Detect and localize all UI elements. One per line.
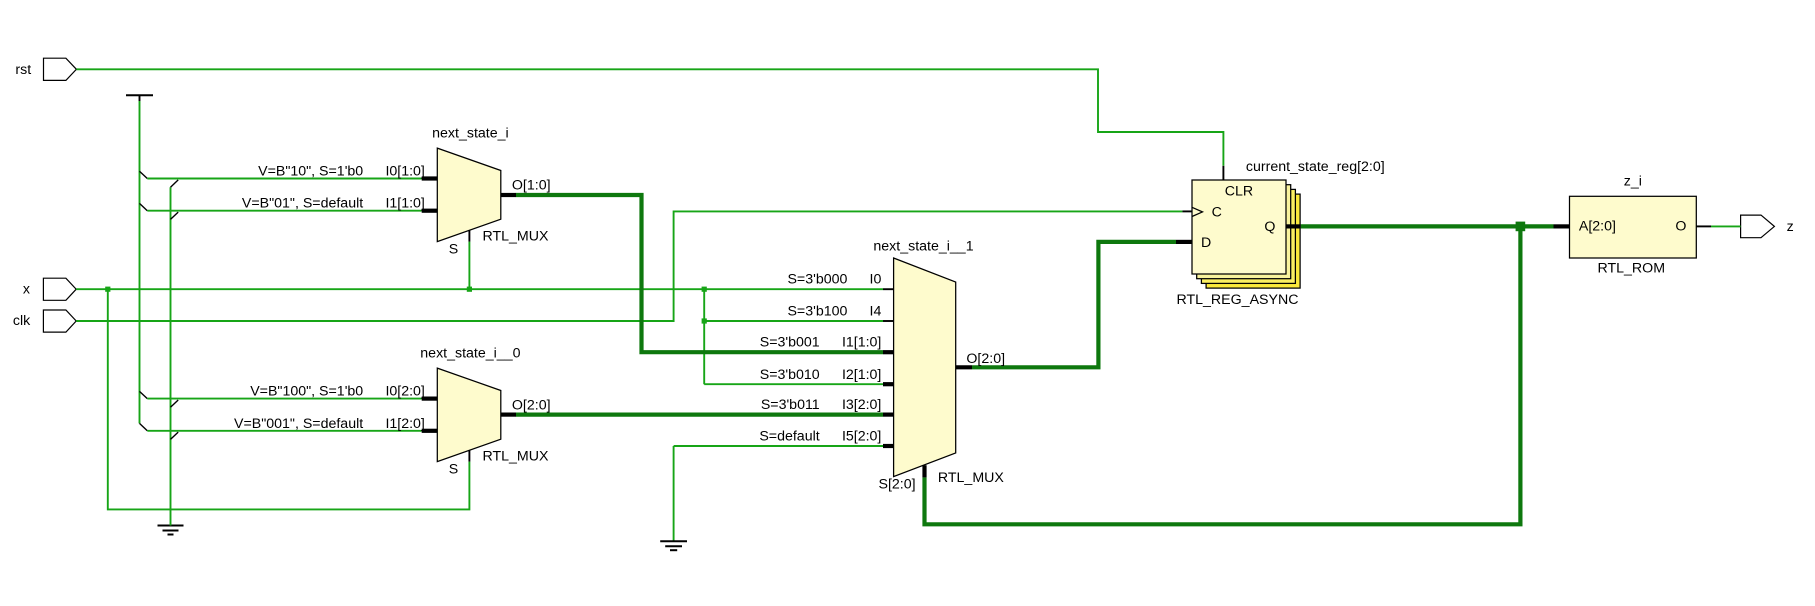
svg-text:rst: rst bbox=[15, 62, 31, 78]
svg-text:x: x bbox=[23, 282, 30, 298]
input port clk bbox=[43, 310, 76, 332]
node junction x-S1 bbox=[467, 287, 472, 292]
svg-text:RTL_ROM: RTL_ROM bbox=[1598, 261, 1666, 277]
pin S[2:0] stub bbox=[922, 465, 926, 477]
wire constant V=B"01" to I1 of next_state_i bbox=[140, 203, 148, 210]
wire x net horizontal bbox=[76, 288, 883, 290]
svg-text:z_i: z_i bbox=[1624, 174, 1642, 190]
node junction Q-feedback bbox=[1516, 222, 1526, 232]
pin I0[1:0] stub bbox=[422, 176, 438, 180]
svg-text:S: S bbox=[449, 462, 458, 478]
mux next_state_i bbox=[437, 148, 501, 242]
svg-text:I5[2:0]: I5[2:0] bbox=[842, 429, 881, 445]
input port rst bbox=[44, 58, 77, 80]
svg-text:S[2:0]: S[2:0] bbox=[879, 477, 916, 493]
output port z bbox=[1741, 215, 1775, 238]
pin I0[2:0] stub bbox=[422, 397, 438, 401]
wire bus O[2:0] of next_state_i__1 to D bbox=[972, 242, 1176, 367]
svg-text:current_state_reg[2:0]: current_state_reg[2:0] bbox=[1246, 159, 1385, 175]
wire constant V=B"100" to I0 of next_state_i__0 bbox=[140, 391, 148, 398]
pin S stub bbox=[468, 450, 470, 461]
wire bus Q to A[2:0] bbox=[1301, 224, 1554, 228]
svg-text:S=3'b000: S=3'b000 bbox=[787, 272, 847, 288]
mux next_state_i__1 bbox=[894, 258, 956, 477]
input port x bbox=[43, 278, 76, 300]
pin I0 stub bbox=[883, 288, 894, 290]
svg-text:I1[2:0]: I1[2:0] bbox=[385, 416, 424, 432]
pin Q stub bbox=[1286, 224, 1301, 228]
svg-text:z: z bbox=[1787, 219, 1794, 235]
pin S stub bbox=[468, 230, 470, 241]
pin I5[2:0] stub bbox=[883, 444, 894, 448]
svg-text:S: S bbox=[449, 241, 458, 257]
svg-text:V=B"001", S=default: V=B"001", S=default bbox=[234, 416, 363, 432]
svg-text:A[2:0]: A[2:0] bbox=[1579, 219, 1616, 235]
pin I1[1:0] stub bbox=[422, 209, 438, 213]
svg-text:next_state_i__0: next_state_i__0 bbox=[420, 346, 520, 362]
pin CLR stub bbox=[1222, 166, 1224, 180]
pin I2[1:0] stub bbox=[883, 382, 894, 386]
power VCC symbol bbox=[126, 94, 153, 96]
pin I1[2:0] stub bbox=[422, 429, 438, 433]
svg-text:S=default: S=default bbox=[759, 429, 819, 445]
register RTL_REG_ASYNC body bbox=[1192, 180, 1286, 274]
svg-text:clk: clk bbox=[13, 313, 31, 329]
svg-text:RTL_MUX: RTL_MUX bbox=[938, 470, 1005, 486]
svg-text:RTL_MUX: RTL_MUX bbox=[483, 449, 550, 465]
svg-text:next_state_i__1: next_state_i__1 bbox=[873, 238, 973, 254]
svg-text:O[2:0]: O[2:0] bbox=[512, 398, 551, 414]
svg-text:O[1:0]: O[1:0] bbox=[512, 178, 551, 194]
svg-text:V=B"01", S=default: V=B"01", S=default bbox=[242, 196, 363, 212]
node junction x-I0 bbox=[702, 287, 707, 292]
pin C stub and clock wedge bbox=[1182, 210, 1192, 212]
wire x to S of next_state_i bbox=[468, 242, 470, 290]
pin O[2:0] stub bbox=[501, 413, 516, 417]
wire clk net bbox=[76, 211, 1182, 321]
svg-text:S=3'b010: S=3'b010 bbox=[760, 367, 820, 383]
wire x branch to I4 and I2 bbox=[703, 289, 705, 384]
wire VCC rail bbox=[139, 101, 141, 423]
svg-text:Q: Q bbox=[1264, 219, 1275, 235]
wire x to S of next_state_i__0 bbox=[108, 289, 470, 509]
svg-text:I3[2:0]: I3[2:0] bbox=[842, 397, 881, 413]
svg-text:I2[1:0]: I2[1:0] bbox=[842, 367, 881, 383]
pin I3[2:0] stub bbox=[883, 413, 894, 417]
svg-text:S=3'b001: S=3'b001 bbox=[760, 335, 820, 351]
svg-text:D: D bbox=[1201, 235, 1211, 251]
svg-text:next_state_i: next_state_i bbox=[432, 125, 509, 141]
wire GND rail bbox=[170, 187, 172, 525]
svg-text:C: C bbox=[1212, 205, 1222, 221]
pin O[1:0] stub bbox=[501, 193, 516, 197]
wire I5 default (gnd) bbox=[674, 445, 883, 447]
register current_state_reg[2:0] stack layers bbox=[1206, 194, 1300, 288]
node junction x-I4 bbox=[702, 318, 707, 323]
svg-text:O[2:0]: O[2:0] bbox=[966, 351, 1005, 367]
wire constant V=B"001" to I1 of next_state_i__0 bbox=[140, 423, 148, 430]
wire constant V=B"10" to I0 of next_state_i bbox=[140, 171, 148, 178]
svg-text:I1[1:0]: I1[1:0] bbox=[842, 335, 881, 351]
ground GND1 symbol bbox=[158, 525, 184, 527]
svg-text:I0[2:0]: I0[2:0] bbox=[385, 384, 424, 400]
wire bus O[1:0] of next_state_i to I1 bbox=[516, 195, 883, 352]
rom z_i RTL_ROM bbox=[1570, 196, 1697, 258]
svg-text:I4: I4 bbox=[870, 304, 882, 320]
wire bus O[2:0] of next_state_i__0 to I3 bbox=[516, 413, 883, 417]
svg-text:I1[1:0]: I1[1:0] bbox=[385, 196, 424, 212]
svg-text:I0[1:0]: I0[1:0] bbox=[385, 164, 424, 180]
svg-text:CLR: CLR bbox=[1225, 184, 1253, 200]
wire z output net bbox=[1711, 225, 1741, 227]
ground GND2 symbol bbox=[660, 540, 687, 542]
pin O[2:0] stub bbox=[956, 365, 972, 369]
svg-text:V=B"100", S=1'b0: V=B"100", S=1'b0 bbox=[250, 384, 363, 400]
svg-text:O: O bbox=[1675, 219, 1686, 235]
node junction x-S0 bbox=[105, 287, 110, 292]
wire rst net bbox=[76, 69, 1223, 166]
svg-text:S=3'b011: S=3'b011 bbox=[761, 397, 820, 413]
pin D stub bbox=[1176, 240, 1192, 244]
svg-text:RTL_REG_ASYNC: RTL_REG_ASYNC bbox=[1177, 292, 1299, 308]
wire bus feedback Q to S[2:0] bbox=[925, 226, 1521, 524]
pin A[2:0] stub bbox=[1554, 224, 1570, 228]
mux next_state_i__0 bbox=[437, 368, 501, 462]
pin I4 stub bbox=[883, 320, 894, 322]
svg-text:I0: I0 bbox=[870, 272, 882, 288]
svg-text:V=B"10", S=1'b0: V=B"10", S=1'b0 bbox=[258, 164, 363, 180]
pin I1[1:0] stub bbox=[883, 350, 894, 354]
svg-text:S=3'b100: S=3'b100 bbox=[787, 304, 847, 320]
pin O stub bbox=[1696, 225, 1711, 227]
svg-text:RTL_MUX: RTL_MUX bbox=[483, 229, 550, 245]
